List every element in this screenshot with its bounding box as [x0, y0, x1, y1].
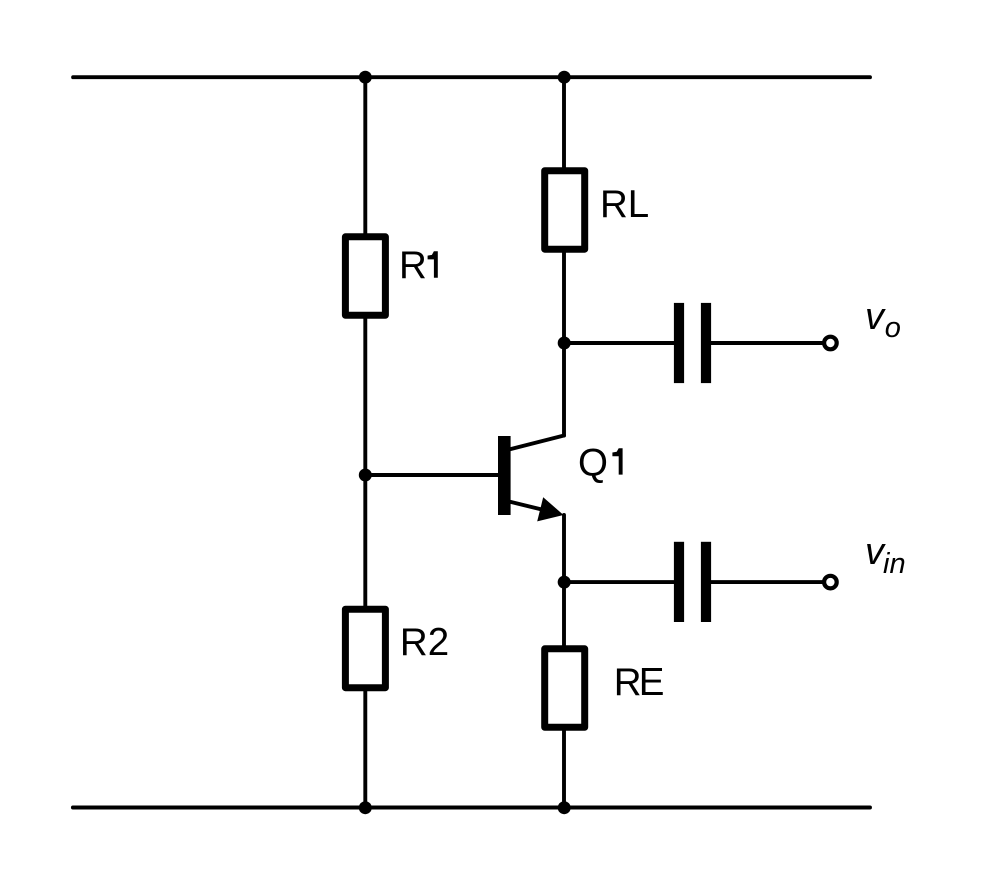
svg-text:in: in [883, 548, 906, 580]
svg-text:Q: Q [578, 442, 608, 485]
svg-text:R: R [399, 244, 427, 287]
svg-text:RE: RE [614, 661, 664, 704]
svg-text:o: o [885, 312, 901, 344]
svg-text:R2: R2 [400, 621, 449, 664]
svg-text:v: v [865, 296, 886, 338]
svg-text:RL: RL [600, 183, 649, 226]
